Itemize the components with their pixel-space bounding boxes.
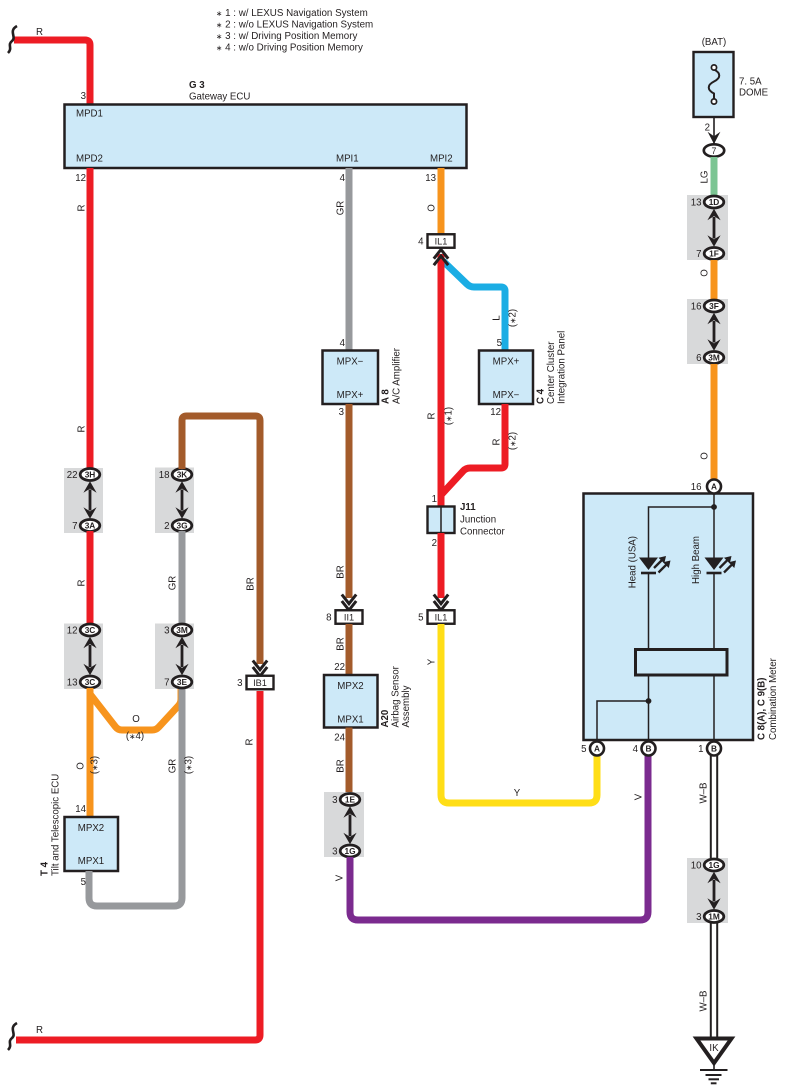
svg-text:LG: LG (700, 171, 711, 184)
svg-text:10: 10 (691, 860, 702, 871)
wire LG terminal7 to 1D (711, 157, 718, 197)
wire R IB1 to bottom-left (16, 691, 260, 1040)
svg-text:3K: 3K (177, 470, 188, 480)
arrowhead into terminal 7 (708, 132, 721, 144)
svg-text:MPD2: MPD2 (76, 154, 103, 165)
svg-text:Y: Y (514, 788, 521, 799)
svg-text:16: 16 (691, 482, 702, 493)
svg-text:12: 12 (490, 407, 501, 418)
ground connector IK triangle (697, 1039, 732, 1064)
wire R gateway pin12 to 3H (87, 168, 94, 469)
connector 1E/1G pin 3 terminal 1G (332, 845, 360, 857)
svg-text:C 4: C 4 (536, 388, 547, 404)
connector 3M/3E shield box (155, 624, 194, 690)
svg-text:Head (USA): Head (USA) (628, 536, 639, 588)
svg-text:1E: 1E (345, 795, 356, 805)
svg-text:1F: 1F (709, 249, 719, 259)
connector 3K/3G shield box (155, 468, 194, 534)
svg-text:12: 12 (75, 173, 86, 184)
wire O 3C to T4 pin14 (87, 688, 94, 817)
svg-text:DOME: DOME (739, 88, 769, 99)
svg-text:∗ 4 : w/o Driving Position Mem: ∗ 4 : w/o Driving Position Memory (216, 43, 363, 54)
meter internal branch to pin5 (597, 701, 649, 740)
svg-text:7. 5A: 7. 5A (739, 77, 762, 88)
svg-text:MPI2: MPI2 (430, 154, 453, 165)
svg-text:(∗3): (∗3) (184, 756, 195, 774)
svg-text:3: 3 (696, 912, 701, 923)
svg-text:8: 8 (326, 612, 331, 623)
wire O option *4 3C to 3E (90, 688, 181, 730)
wire break squiggle bottom-left (8, 1023, 17, 1050)
svg-text:3F: 3F (709, 301, 719, 311)
svg-text:16: 16 (691, 301, 702, 312)
svg-text:O: O (427, 204, 438, 212)
svg-text:1G: 1G (344, 846, 355, 856)
LED indicator Head (USA) (639, 556, 671, 573)
svg-text:Tilt and Telescopic ECU: Tilt and Telescopic ECU (51, 774, 62, 876)
connector 1G/1M right pin 3 terminal 1M (696, 911, 724, 923)
ECU C4 Center Cluster Integration Panel box (479, 351, 533, 405)
svg-text:18: 18 (159, 470, 170, 481)
svg-text:3: 3 (237, 678, 242, 689)
svg-text:12: 12 (67, 625, 78, 636)
wire break squiggle top-left (8, 26, 17, 53)
wire GR gateway pin4 to A8 (346, 168, 353, 351)
svg-text:MPX1: MPX1 (78, 856, 104, 867)
svg-text:A/C Amplifier: A/C Amplifier (392, 347, 403, 404)
connector 3F/3M right pin 16 terminal 3F (691, 300, 724, 312)
svg-text:MPD1: MPD1 (76, 109, 103, 120)
svg-text:BR: BR (336, 637, 347, 650)
svg-text:R: R (77, 580, 88, 587)
chevron into II1 (342, 595, 356, 604)
LED indicator High Beam (705, 556, 737, 573)
wire BR 3K to IB1 (182, 416, 260, 664)
fuse 7.5A DOME box (694, 52, 734, 117)
connector 3C/3C pin 13 terminal 3C (67, 676, 100, 688)
svg-text:3C: 3C (85, 625, 96, 635)
svg-text:3: 3 (339, 407, 344, 418)
connector 3H/3A pin 22 terminal 3H (67, 469, 100, 481)
connector 1D/1F arrows (707, 209, 720, 247)
meter internal component block (636, 650, 728, 676)
connector 3M/3E pin 7 terminal 3E (164, 676, 192, 688)
wire V 1G to combination meter pin4B (350, 756, 648, 920)
svg-text:R: R (427, 413, 438, 420)
svg-text:∗ 2 : w/o LEXUS Navigation Sys: ∗ 2 : w/o LEXUS Navigation System (216, 20, 373, 31)
svg-text:Y: Y (427, 658, 438, 665)
wire BR A20 pin24 to 1E (346, 728, 353, 795)
svg-text:Connector: Connector (460, 527, 505, 538)
svg-text:Gateway ECU: Gateway ECU (189, 92, 250, 103)
connector 3C/3C pin 12 terminal 3C (67, 624, 100, 636)
junction box IL1 upper (418, 234, 454, 248)
ECU T4 Tilt and Telescopic ECU box (65, 817, 119, 871)
svg-text:O: O (132, 714, 140, 725)
svg-text:IK: IK (709, 1043, 719, 1054)
svg-text:R: R (36, 27, 43, 38)
wire fuse to terminal 7 (713, 117, 715, 144)
wire R J11 pin2 to IL1 lower (438, 533, 445, 598)
svg-text:MPX+: MPX+ (493, 357, 520, 368)
svg-text:4: 4 (633, 744, 639, 755)
svg-text:6: 6 (696, 353, 701, 364)
svg-text:22: 22 (334, 662, 345, 673)
svg-text:MPX−: MPX− (493, 390, 520, 401)
connector 3F/3M right shield box (687, 299, 728, 364)
connector 3M/3E pin 3 terminal 3M (164, 624, 192, 636)
svg-text:GR: GR (168, 576, 179, 591)
svg-text:4: 4 (340, 338, 346, 349)
terminal B pin1 of meter (698, 742, 721, 756)
svg-text:R: R (492, 439, 503, 446)
ECU C8/C9 Combination Meter box (584, 494, 754, 741)
svg-text:GR: GR (168, 759, 179, 774)
connector 1G/1M right shield box (687, 858, 728, 923)
meter internal wire from pin16 (713, 494, 715, 558)
svg-text:Airbag Sensor: Airbag Sensor (391, 665, 402, 727)
svg-text:3C: 3C (85, 677, 96, 687)
svg-text:(∗3): (∗3) (90, 756, 101, 774)
wire O 1F to 3F (711, 260, 718, 301)
svg-text:W–B: W–B (699, 991, 710, 1012)
wire L option *2 to C4 pin5 (443, 261, 505, 351)
connector 3F/3M right arrows (707, 313, 720, 351)
svg-text:O: O (700, 269, 711, 277)
connector 3H/3A shield box (64, 468, 103, 533)
svg-text:Assembly: Assembly (401, 685, 412, 727)
svg-text:R: R (36, 1025, 43, 1036)
legend note *1-*4 (216, 8, 373, 54)
svg-text:Junction: Junction (460, 515, 496, 526)
svg-text:(∗2): (∗2) (508, 309, 519, 327)
svg-text:7: 7 (696, 249, 701, 260)
connector 3K/3G pin 18 terminal 3K (159, 469, 192, 481)
wire BR A8 pin3 to II1 (346, 404, 353, 598)
wire GR 3G to 3M (179, 531, 186, 625)
svg-text:14: 14 (75, 804, 86, 815)
svg-text:A: A (594, 744, 600, 754)
connector 1E/1G shield box (324, 792, 364, 857)
wire R 3A to 3C (87, 531, 94, 625)
svg-text:(∗1): (∗1) (444, 407, 455, 425)
connector 3C/3C arrows (83, 637, 96, 675)
svg-text:22: 22 (67, 470, 78, 481)
svg-text:O: O (76, 762, 87, 770)
junction connector J11 box (428, 507, 455, 534)
svg-text:Integration Panel: Integration Panel (557, 331, 568, 404)
svg-text:R: R (77, 205, 88, 212)
svg-text:3G: 3G (176, 521, 187, 531)
svg-text:1M: 1M (708, 912, 720, 922)
svg-text:MPX2: MPX2 (78, 823, 104, 834)
svg-text:2: 2 (164, 521, 169, 532)
meter internal junction dot lower (646, 698, 652, 704)
svg-text:5: 5 (497, 338, 502, 349)
svg-text:R: R (77, 426, 88, 433)
svg-text:7: 7 (712, 146, 717, 156)
svg-text:V: V (634, 793, 645, 800)
svg-text:MPX−: MPX− (337, 357, 364, 368)
svg-text:7: 7 (72, 521, 77, 532)
svg-text:IL1: IL1 (435, 613, 448, 623)
terminal A pin5 of meter (581, 742, 604, 756)
svg-text:1: 1 (698, 744, 703, 755)
svg-text:Combination Meter: Combination Meter (768, 657, 779, 740)
svg-text:O: O (700, 452, 711, 460)
svg-text:3: 3 (332, 795, 337, 806)
svg-text:2: 2 (432, 538, 437, 549)
svg-text:1G: 1G (708, 860, 719, 870)
meter internal wires below block (648, 675, 650, 740)
svg-text:3H: 3H (85, 470, 96, 480)
svg-text:3: 3 (164, 625, 169, 636)
junction box II1 (326, 610, 362, 624)
connector 1D/1F pin 7 terminal 1F (696, 248, 724, 260)
connector 3C/3C shield box (64, 624, 103, 690)
svg-text:J11: J11 (460, 502, 476, 513)
terminal 7 oval (704, 144, 724, 156)
wire R option *2 C4 pin12 to junction (441, 404, 505, 495)
svg-text:MPX2: MPX2 (337, 681, 363, 692)
chevron into IB1 (253, 661, 267, 670)
svg-text:4: 4 (340, 173, 346, 184)
svg-text:(∗4): (∗4) (126, 731, 144, 742)
junction box IL1 lower (418, 610, 454, 624)
meter internal junction dot (711, 504, 717, 510)
svg-text:13: 13 (67, 677, 78, 688)
svg-text:IL1: IL1 (435, 237, 448, 247)
connector 3H/3A pin 7 terminal 3A (72, 520, 100, 532)
fuse element symbol (709, 70, 720, 100)
svg-text:IB1: IB1 (253, 678, 267, 688)
svg-text:G 3: G 3 (189, 80, 205, 91)
svg-text:3: 3 (332, 846, 337, 857)
connector 3H/3A arrows (83, 481, 96, 518)
ECU A8 A/C Amplifier box (323, 351, 379, 405)
svg-text:24: 24 (334, 733, 345, 744)
svg-text:BR: BR (336, 759, 347, 772)
svg-text:5: 5 (581, 744, 586, 755)
connector 3F/3M right pin 6 terminal 3M (696, 352, 724, 364)
connector 1G/1M right pin 10 terminal 1G (691, 859, 724, 871)
svg-text:T 4: T 4 (40, 861, 51, 876)
connector 1D/1F pin 13 terminal 1D (691, 196, 724, 208)
svg-text:BR: BR (246, 577, 257, 590)
connector 3K/3G pin 2 terminal 3G (164, 520, 192, 532)
connector 1E/1G arrows (343, 806, 356, 844)
svg-text:3E: 3E (177, 677, 188, 687)
connector 1E/1G pin 3 terminal 1E (332, 794, 360, 806)
terminal B pin4 of meter (633, 742, 656, 756)
svg-text:V: V (335, 874, 346, 881)
wire O 3M to combination meter pin16A (711, 364, 718, 479)
svg-text:2: 2 (705, 123, 710, 134)
ground symbol (700, 1063, 728, 1083)
svg-text:High Beam: High Beam (691, 536, 702, 584)
svg-text:A20: A20 (380, 710, 391, 728)
svg-text:B: B (711, 744, 717, 754)
wire R feed to gateway pin 3 (14, 40, 90, 106)
svg-text:MPX1: MPX1 (337, 715, 363, 726)
wire BR II1 to A20 (346, 624, 353, 676)
svg-text:Center Cluster: Center Cluster (546, 341, 557, 404)
svg-text:5: 5 (418, 612, 423, 623)
svg-text:B: B (646, 744, 652, 754)
ECU A20 Airbag Sensor Assembly box (324, 675, 378, 728)
svg-text:4: 4 (418, 236, 424, 247)
svg-text:A: A (711, 482, 717, 492)
wire W-B meter pin1B to ground (double line) (711, 756, 717, 1040)
wire Y IL1 lower to combination meter pin5A (441, 624, 597, 803)
svg-text:(∗2): (∗2) (508, 432, 519, 450)
svg-text:MPX+: MPX+ (337, 390, 364, 401)
svg-text:1D: 1D (709, 197, 720, 207)
svg-text:3M: 3M (708, 353, 720, 363)
wire R IL1 to J11 pin1 (438, 254, 445, 507)
connector 3K/3G arrows (175, 481, 188, 518)
svg-text:13: 13 (425, 173, 436, 184)
meter internal branch wire to head lamp (649, 507, 715, 558)
wire GR T4 pin5 to 3E (89, 688, 182, 906)
connector 3M/3E arrows (175, 637, 188, 675)
svg-text:A 8: A 8 (381, 389, 392, 404)
svg-text:L: L (492, 315, 503, 321)
svg-text:3M: 3M (176, 625, 188, 635)
svg-text:BR: BR (336, 565, 347, 578)
junction box IB1 (237, 676, 273, 690)
svg-text:3: 3 (81, 91, 86, 102)
ECU G3 Gateway ECU box (65, 105, 467, 169)
meter internal wires LEDs to resistor block (648, 573, 650, 650)
svg-text:5: 5 (81, 877, 86, 888)
connector 1D/1F shield box (687, 195, 728, 260)
chevron into IL1 lower (434, 595, 448, 604)
svg-text:R: R (245, 739, 256, 746)
connector 1G/1M right arrows (707, 872, 720, 910)
chevron out of IL1 upper (434, 250, 448, 259)
svg-text:3A: 3A (85, 521, 96, 531)
svg-text:7: 7 (164, 677, 169, 688)
svg-text:II1: II1 (344, 613, 354, 623)
wire O gateway pin13 to IL1 (438, 168, 445, 235)
svg-text:MPI1: MPI1 (336, 154, 359, 165)
svg-text:C 8(A), C 9(B): C 8(A), C 9(B) (757, 678, 768, 740)
svg-text:GR: GR (336, 201, 347, 216)
svg-text:13: 13 (691, 197, 702, 208)
svg-text:W–B: W–B (699, 783, 710, 804)
terminal A pin16 of meter (691, 480, 721, 494)
svg-text:∗ 3 : w/ Driving Position Memo: ∗ 3 : w/ Driving Position Memory (216, 31, 357, 42)
svg-text:1: 1 (432, 494, 437, 505)
svg-text:(BAT): (BAT) (702, 37, 727, 48)
svg-text:∗ 1 : w/ LEXUS Navigation Syst: ∗ 1 : w/ LEXUS Navigation System (216, 8, 368, 19)
